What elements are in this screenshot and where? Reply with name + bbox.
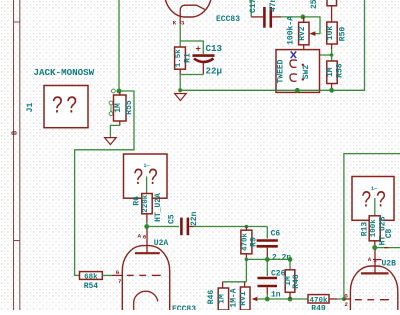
triode U2A envelope	[122, 246, 169, 315]
resistor R48 body	[285, 270, 295, 293]
ground under R55	[105, 138, 117, 145]
placeholder question glyph 1	[133, 166, 143, 192]
SW2 contact dot 2	[302, 78, 304, 80]
wire R13 to anode node	[374, 246, 376, 248]
svg-text:470k: 470k	[242, 233, 250, 252]
wire R49 to U2B grid	[337, 298, 343, 300]
wire switch to R50/R58 node	[320, 54, 332, 56]
R55 top pin	[119, 92, 121, 95]
resistor R50 body	[327, 22, 337, 44]
svg-text:R6: R6	[133, 196, 142, 206]
svg-text:R46: R46	[207, 290, 216, 305]
svg-text:U2B: U2B	[382, 259, 397, 268]
placeholder question glyph 2	[148, 166, 158, 192]
svg-text:1—: 1—	[144, 163, 151, 169]
U2A anode bar	[135, 252, 160, 254]
wire from right edge to U2B grid	[344, 154, 400, 299]
C26 bottom pin	[266, 287, 268, 294]
wire R54 to U2A grid	[102, 274, 112, 276]
wire R55 to ground	[110, 125, 119, 137]
svg-text:C5: C5	[167, 214, 176, 224]
RV2 wiper arrow	[309, 31, 315, 36]
C5 right pin	[189, 226, 193, 228]
U2B anode bar	[361, 272, 389, 274]
wire C13/R1 bottoms to ground rail	[180, 75, 203, 91]
wire R50 to R58	[331, 49, 333, 61]
R13 bottom pin	[374, 241, 376, 246]
ground rail wire	[180, 0, 364, 90]
RV2 top pin	[303, 17, 305, 22]
svg-text:22n: 22n	[190, 211, 199, 226]
svg-text:C17: C17	[249, 0, 258, 13]
resistor R55 body	[114, 95, 127, 121]
C13 bottom curved plate	[194, 59, 214, 63]
junction grid U2B	[342, 297, 346, 301]
J1 question glyph 2	[66, 93, 78, 121]
junction at R9 top	[245, 225, 249, 229]
svg-text:?: ?	[376, 188, 386, 214]
wire R6 to anode node	[146, 222, 148, 227]
U2B anode pin	[374, 250, 376, 274]
capacitor C17 left plate	[263, 7, 266, 28]
C17 right pin	[272, 16, 281, 18]
svg-text:1—: 1—	[371, 186, 378, 192]
SW2 contact curl 2	[290, 74, 297, 81]
svg-text:RV2: RV2	[298, 26, 307, 41]
wire R58 to rail	[331, 88, 333, 90]
svg-text:?: ?	[148, 166, 158, 192]
svg-text:?: ?	[361, 188, 371, 214]
R55 bottom pin	[119, 121, 121, 125]
wire from top edge to J1/R55 node	[118, 0, 120, 91]
anode wire from top to C17	[250, 0, 252, 17]
junction R48 top	[288, 257, 293, 262]
svg-text:100k-A: 100k-A	[287, 16, 296, 45]
wire anode node to C8 off sheet	[375, 247, 400, 249]
svg-text:JACK-MONOSW: JACK-MONOSW	[34, 67, 95, 78]
junction C26 bottom rail	[265, 297, 270, 302]
junction R48 bottom rail	[288, 297, 293, 302]
svg-text:R49: R49	[311, 305, 326, 311]
U2A anode pin	[146, 229, 148, 254]
ground under R1	[175, 94, 187, 101]
junction at R1 ground	[178, 88, 182, 92]
J1 switch contact link	[110, 105, 112, 112]
pin-end circle near J1	[112, 89, 116, 93]
resistor R58 body	[327, 61, 337, 84]
svg-text:G: G	[344, 292, 348, 299]
svg-text:1M: 1M	[217, 294, 226, 304]
svg-text:R58: R58	[335, 63, 344, 78]
C17 left pin	[251, 16, 263, 18]
J1 question glyph 1	[52, 93, 64, 121]
svg-text:C8: C8	[385, 228, 394, 238]
resistor R49 body	[308, 295, 329, 303]
U2B grid dashed electrode	[355, 299, 389, 301]
svg-text:A: A	[368, 256, 372, 263]
U1 pin K3	[179, 17, 181, 24]
U2A grid dashed electrode	[127, 274, 161, 276]
svg-text:1.5k: 1.5k	[175, 49, 183, 68]
U2B pin tick	[373, 259, 382, 261]
svg-text:?: ?	[133, 166, 143, 192]
svg-text:C13: C13	[206, 43, 223, 54]
junction SW2 bottom on rail	[295, 88, 300, 93]
R58 bottom pin	[331, 84, 333, 89]
svg-text:7: 7	[118, 278, 122, 285]
R9 bottom pin	[245, 254, 247, 258]
svg-text:100k: 100k	[370, 219, 378, 238]
placeholder pin wire into R13	[374, 198, 376, 216]
R50 bottom pin	[331, 44, 333, 49]
svg-text:A: A	[138, 233, 142, 240]
svg-text:6: 6	[143, 234, 147, 241]
C5 right plate	[187, 218, 190, 236]
junction node at R55 top	[117, 89, 122, 94]
wire rail across SW2	[276, 89, 320, 91]
wire node J1 to grid path	[75, 91, 134, 275]
resistor R54 body	[80, 272, 103, 280]
junction at RV2 top	[301, 15, 306, 20]
wire C17 to RV2 top	[281, 17, 320, 34]
wire C5 to tone stack	[194, 226, 268, 228]
wire C26 to bottom rail	[266, 294, 268, 299]
C17 right plate	[269, 7, 272, 28]
connector J1 body	[44, 86, 88, 128]
resistor R6 body	[142, 194, 152, 214]
C13 bottom lead	[202, 63, 204, 75]
triode U2B envelope	[350, 266, 397, 315]
svg-text:C6: C6	[271, 229, 281, 238]
J1 switch contact circles	[109, 101, 113, 105]
pin linking to R50	[331, 6, 333, 22]
svg-text:10k: 10k	[326, 26, 335, 41]
svg-text:1n: 1n	[271, 290, 281, 299]
capacitor C5 left plate	[180, 218, 183, 236]
placeholder question glyph 1	[361, 188, 371, 214]
svg-text:?: ?	[66, 93, 78, 121]
C8 pin stub	[384, 247, 389, 249]
svg-text:2: 2	[344, 301, 348, 308]
U2B grid pin	[344, 298, 351, 300]
U1 cathode	[180, 5, 205, 17]
resistor R46 body	[218, 288, 228, 310]
placeholder question glyph 2	[376, 188, 386, 214]
placeholder symbol box above U2B	[352, 177, 394, 221]
capacitor C6 top plate	[257, 239, 278, 242]
svg-text:ECC83: ECC83	[172, 305, 196, 310]
svg-text:47n: 47n	[269, 0, 278, 12]
switch SW2 body	[276, 50, 320, 93]
RV1 wiper arrow	[252, 297, 258, 302]
svg-text:ECC83: ECC83	[216, 15, 240, 24]
U2A grid pin	[112, 274, 123, 276]
svg-text:3: 3	[181, 20, 185, 27]
wire C26 drop	[266, 259, 268, 276]
C26 bottom plate	[258, 285, 278, 288]
potentiometer RV1 body	[240, 287, 250, 310]
RV2 bottom pin	[303, 45, 305, 50]
svg-text:U2A: U2A	[154, 239, 169, 248]
C6 bottom plate	[257, 245, 278, 248]
placeholder pin wire into R6	[146, 177, 148, 194]
svg-text:1M-A: 1M-A	[230, 288, 239, 307]
svg-text:G: G	[116, 269, 120, 276]
wire branch to C13	[180, 41, 203, 54]
junction C6 bottom	[265, 257, 270, 262]
R1 bottom pin	[179, 69, 181, 74]
sheet border frame left	[14, 0, 20, 310]
junction R9/rail	[245, 258, 249, 262]
mid rail wire	[245, 258, 247, 282]
junction R58 rail	[329, 88, 334, 93]
placeholder symbol box above U2A	[124, 154, 168, 198]
SW2 contact dot 1	[302, 64, 304, 66]
R48 bottom pin	[289, 292, 291, 299]
resistor R13 body	[369, 216, 380, 241]
svg-text:220k: 220k	[142, 194, 150, 213]
partial resistor above R50	[327, 0, 337, 6]
SW2 contact curl 1	[290, 60, 297, 67]
svg-text:R48: R48	[292, 274, 301, 289]
wire RV1/R46 link	[223, 281, 247, 283]
svg-text:J1: J1	[26, 103, 35, 113]
rail from R9 to R48	[246, 259, 290, 269]
svg-text:R55: R55	[125, 100, 134, 115]
svg-text:R50: R50	[338, 27, 347, 42]
potentiometer RV2 body	[299, 22, 309, 45]
RV1 top pin	[244, 282, 246, 287]
R46 top pin	[222, 282, 224, 288]
svg-text:R1: R1	[184, 53, 193, 63]
wire U1 cathode to R1 and C13	[179, 24, 181, 47]
svg-text:SW2: SW2	[302, 65, 311, 80]
svg-text:R13: R13	[360, 222, 369, 237]
svg-text:1: 1	[373, 257, 377, 264]
svg-text:HT_U2A: HT_U2A	[154, 193, 163, 222]
R49 right pin	[329, 298, 337, 300]
capacitor C26 top plate	[258, 277, 278, 280]
svg-text:22µ: 22µ	[206, 66, 223, 77]
U2A cathode arc	[134, 291, 158, 310]
wire C6 drop	[266, 227, 268, 239]
svg-text:K: K	[173, 19, 177, 26]
svg-text:25: 25	[310, 0, 319, 9]
svg-text:?: ?	[52, 93, 64, 121]
svg-text:R54: R54	[84, 282, 99, 291]
C13 top plate	[193, 54, 215, 57]
C6 bottom pin	[266, 248, 268, 258]
R9 top pin	[245, 227, 247, 231]
bottom rail wire	[257, 298, 308, 300]
SW2 DNP cross	[291, 51, 297, 58]
junction	[330, 53, 334, 57]
svg-text:1M: 1M	[114, 103, 123, 113]
triode U1 (top tube) envelope	[164, 0, 211, 17]
svg-text:68k: 68k	[84, 274, 98, 282]
svg-text:RV1: RV1	[239, 291, 248, 306]
svg-text:1M: 1M	[326, 67, 335, 77]
wire anode node to C5	[147, 226, 179, 228]
junction anode node U2A	[144, 224, 149, 229]
svg-text:TWEED: TWEED	[277, 59, 286, 83]
resistor R9 body	[241, 230, 252, 254]
svg-text:+: +	[196, 45, 201, 55]
resistor R1 body	[175, 47, 186, 69]
junction anode node U2B	[372, 245, 377, 250]
R6 bottom pin	[146, 214, 148, 222]
